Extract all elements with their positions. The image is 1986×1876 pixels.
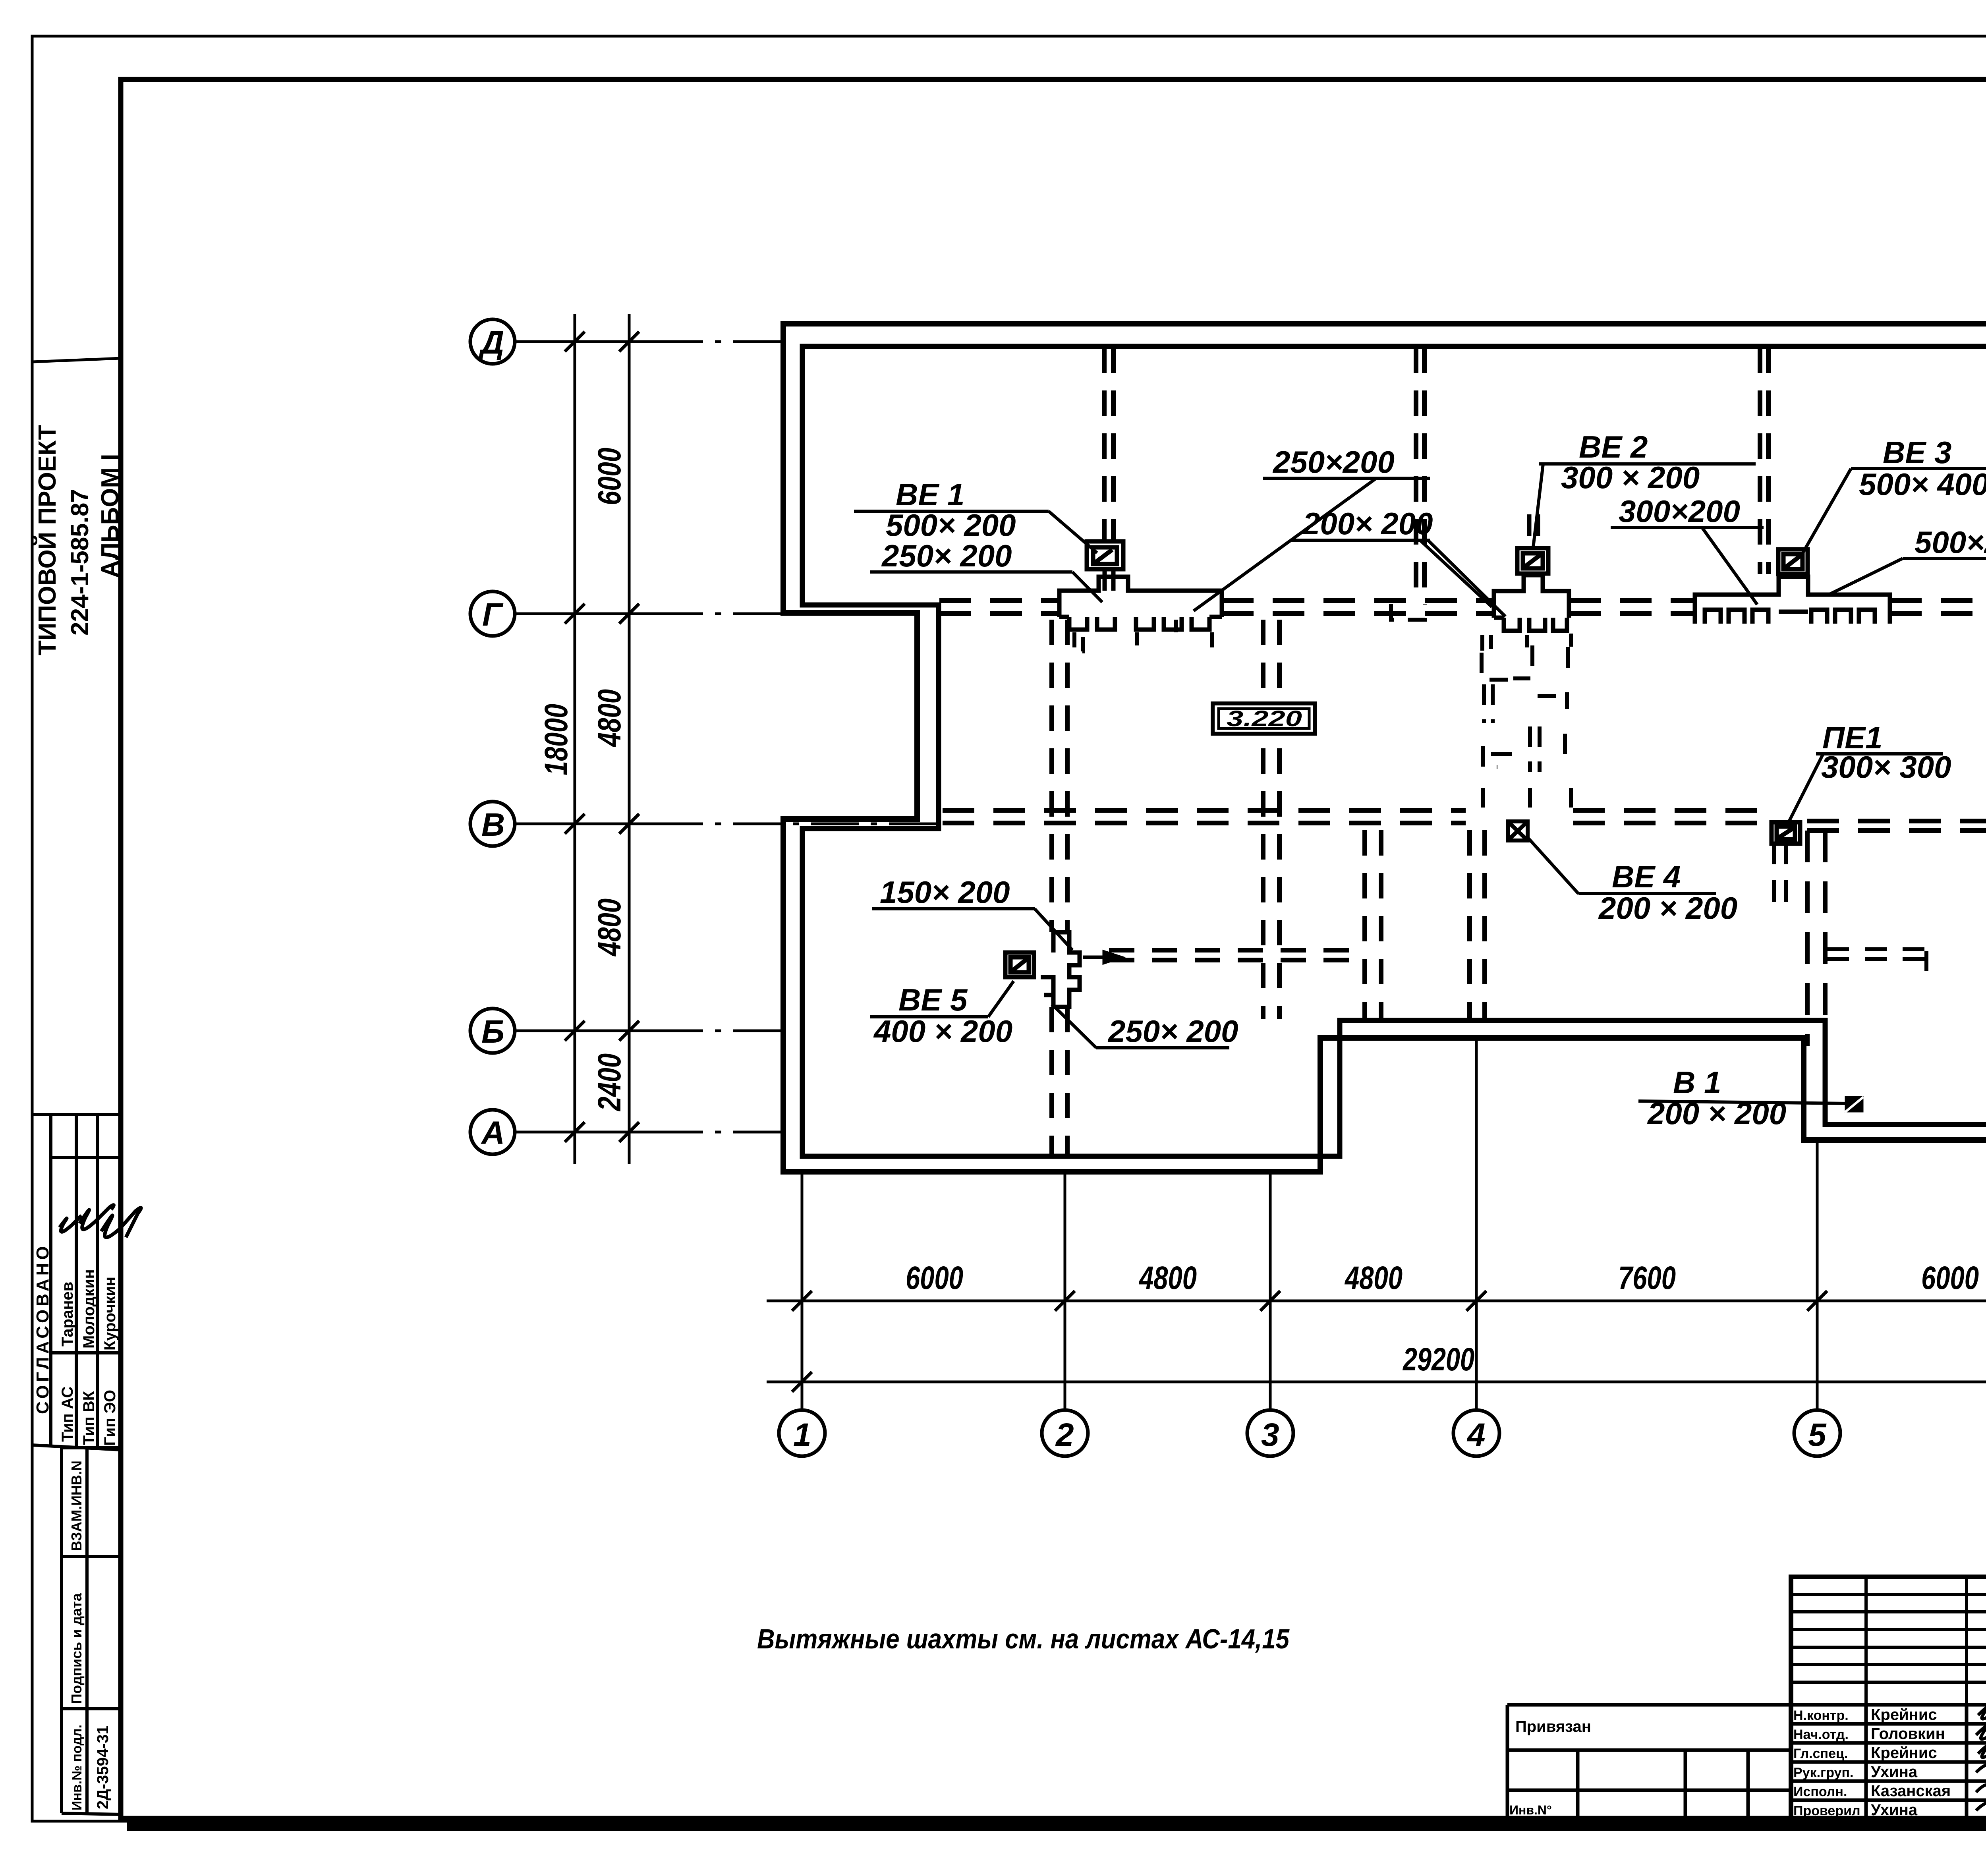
shaft VE4 box (1508, 821, 1528, 840)
bottom extension line axis 5 (1816, 1140, 1819, 1410)
svg-text:4800: 4800 (591, 898, 628, 957)
bottom axis circle 2 (1042, 1410, 1088, 1456)
svg-text:3: 3 (1261, 1417, 1279, 1453)
svg-text:4800: 4800 (1344, 1260, 1403, 1296)
title block outer (1791, 1577, 1986, 1818)
building outer wall outline (783, 324, 1986, 1172)
svg-text:2400: 2400 (591, 1053, 628, 1112)
svg-text:Гл.спец.: Гл.спец. (1793, 1746, 1848, 1761)
svg-text:200 × 200: 200 × 200 (1647, 1096, 1786, 1131)
bottom dimension line 2 (767, 1381, 1986, 1383)
shaft VE5 arrow (1083, 952, 1120, 962)
stair cluster dashed partitions (1482, 645, 1571, 808)
svg-text:5: 5 (1808, 1417, 1827, 1453)
right block inner partition dashed (1827, 949, 1926, 971)
svg-text:224-1-585.87: 224-1-585.87 (66, 489, 94, 636)
svg-text:300×200: 300×200 (1619, 494, 1740, 529)
shaft VE1 comb block (1059, 577, 1222, 630)
chimney duct above VE2 dashed (1529, 514, 1538, 547)
chimney duct x4440 top room dashed (1760, 348, 1768, 574)
svg-text:Ухина: Ухина (1871, 1801, 1918, 1819)
partition x3455 dashed (1365, 830, 1381, 1019)
svg-text:6000: 6000 (591, 448, 628, 505)
svg-text:2: 2 (1055, 1417, 1074, 1453)
leader VE1 (1049, 511, 1097, 553)
axis G line (514, 612, 784, 615)
svg-text:Н.контр.: Н.контр. (1793, 1708, 1849, 1723)
svg-text:4800: 4800 (591, 689, 628, 748)
leader 250x200 top (1194, 478, 1376, 611)
shaft PE1 box (1772, 822, 1800, 844)
bottom extension line axis 2 (1064, 1172, 1066, 1410)
bottom dim ticks (792, 1291, 1986, 1392)
right block left wall dashed (1807, 831, 1825, 1046)
shaft V1 box (1845, 1097, 1863, 1112)
svg-text:300 × 200: 300 × 200 (1561, 460, 1700, 495)
partition axis2 dashed below G (1052, 620, 1067, 1154)
mid room partition dashed horizontal (1109, 950, 1365, 960)
axis B line (514, 1030, 784, 1032)
frame bottom smear line (127, 1821, 1986, 1831)
signature squiggles (1976, 1707, 1986, 1810)
svg-text:6000: 6000 (906, 1260, 963, 1296)
svg-text:СОГЛАСОВАНО: СОГЛАСОВАНО (33, 1243, 52, 1414)
axis D line (514, 340, 784, 343)
leader VE5 (988, 981, 1014, 1017)
svg-text:А: А (481, 1115, 505, 1151)
svg-text:1: 1 (793, 1417, 811, 1453)
svg-text:Таранев: Таранев (59, 1282, 76, 1347)
leader 300x200 second (1702, 527, 1757, 605)
svg-text:Подпись и дата: Подпись и дата (68, 1593, 85, 1704)
svg-text:500×200: 500×200 (1915, 525, 1986, 560)
svg-text:Исполн.: Исполн. (1793, 1784, 1847, 1799)
shaft VE2 lower stubs dashed (1482, 634, 1571, 651)
svg-text:Проверил: Проверил (1793, 1803, 1860, 1818)
leader 250x200 left (1072, 572, 1102, 602)
svg-text:ВЕ 4: ВЕ 4 (1612, 859, 1681, 894)
svg-text:150× 200: 150× 200 (880, 875, 1010, 910)
svg-text:200 × 200: 200 × 200 (1598, 891, 1737, 925)
bottom dimension line 1 (767, 1300, 1986, 1302)
svg-text:Рук.груп.: Рук.груп. (1793, 1765, 1853, 1780)
svg-text:Гип ЭО: Гип ЭО (101, 1390, 119, 1446)
building inner wall outline (802, 346, 1986, 1156)
axis A line (514, 1131, 784, 1134)
elevation mark 3.220 box (1213, 703, 1315, 734)
axis V line (514, 823, 939, 825)
corridor wall V dashed pair (943, 810, 1762, 823)
svg-text:ВЕ 5: ВЕ 5 (898, 982, 968, 1017)
svg-text:Нач.отд.: Нач.отд. (1793, 1727, 1849, 1742)
svg-text:29200: 29200 (1402, 1341, 1474, 1378)
shaft VE2 comb block (1494, 575, 1569, 631)
svg-text:Крейнис: Крейнис (1871, 1706, 1937, 1723)
svg-text:500× 400: 500× 400 (1859, 467, 1986, 502)
bottom axis circle 3 (1247, 1410, 1293, 1456)
axis circle G (470, 591, 515, 636)
svg-text:Крейнис: Крейнис (1871, 1744, 1937, 1762)
leader VE4 (1526, 836, 1578, 894)
svg-text:Инв.N°: Инв.N° (1509, 1803, 1552, 1817)
axis circle V (470, 802, 515, 846)
shaft VE1 duct to comb (1105, 569, 1113, 591)
svg-text:Тип ВК: Тип ВК (80, 1391, 98, 1445)
shaft VE1 box (1087, 541, 1123, 569)
svg-text:6000: 6000 (1921, 1260, 1979, 1296)
svg-text:Молодкин: Молодкин (80, 1269, 98, 1349)
svg-text:ВЗАМ.ИНВ.N: ВЗАМ.ИНВ.N (68, 1461, 85, 1551)
leaders 200x200 mid (1420, 540, 1492, 607)
signatures in soglasovano (60, 1205, 141, 1238)
svg-text:Казанская: Казанская (1871, 1782, 1951, 1800)
title block upper revision grid (1791, 1577, 1986, 1705)
svg-text:В: В (481, 807, 505, 843)
svg-text:250×200: 250×200 (1272, 444, 1395, 479)
shaft VE1 lower stubs dashed (1074, 632, 1212, 651)
left dimension line 18000 (574, 314, 576, 1164)
chimney duct x3575 top room dashed (1416, 348, 1424, 601)
shaft VE2 box (1517, 548, 1548, 574)
title block signature rows (1791, 1705, 1986, 1818)
svg-text:Б: Б (481, 1014, 504, 1050)
svg-text:Г: Г (482, 597, 504, 633)
svg-text:Инв.№ подл.: Инв.№ подл. (70, 1725, 85, 1810)
svg-text:Д: Д (478, 325, 504, 361)
svg-text:18000: 18000 (538, 704, 574, 775)
svg-text:Привязан: Привязан (1515, 1718, 1591, 1735)
bottom axis circle 1 (779, 1410, 825, 1456)
bottom axis circle 4 (1453, 1410, 1499, 1456)
PE1 duct stub dashed (1774, 842, 1786, 908)
svg-text:3.220: 3.220 (1227, 706, 1302, 731)
svg-text:4800: 4800 (1138, 1260, 1197, 1296)
soglasovano table (32, 1115, 121, 1450)
axis circle B (470, 1009, 515, 1053)
svg-text:500× 200: 500× 200 (886, 508, 1016, 543)
svg-text:4: 4 (1466, 1417, 1486, 1453)
svg-text:400 × 200: 400 × 200 (873, 1014, 1012, 1049)
svg-text:250× 200: 250× 200 (881, 538, 1012, 573)
svg-text:Головкин: Головкин (1871, 1725, 1945, 1743)
top band line (121, 77, 1986, 82)
vzam inv block (62, 1448, 121, 1814)
bottom extension line axis 3 (1269, 1172, 1272, 1410)
bottom extension line axis 1 (801, 1172, 804, 1410)
left strip top tick (32, 358, 121, 362)
svg-text:АЛЬБОМ I: АЛЬБОМ I (97, 454, 124, 578)
svg-text:250× 200: 250× 200 (1107, 1014, 1238, 1049)
leader PE1 (1788, 754, 1823, 823)
bottom extension line axis 4 (1475, 1038, 1478, 1410)
corridor wall G dashed pair (939, 601, 1986, 614)
shaft VE3 box (1778, 549, 1808, 574)
shaft VE5 assembly (1005, 932, 1080, 1007)
svg-text:Курочкин: Курочкин (101, 1277, 119, 1350)
svg-text:В 1: В 1 (1673, 1065, 1721, 1100)
privyazan box (1507, 1705, 1791, 1818)
svg-text:Вытяжные шахты см. на лист: Вытяжные шахты см. на листах АС-14,15 (757, 1623, 1290, 1654)
axis circle D (470, 319, 515, 364)
left dimension line segments (628, 314, 631, 1164)
leader 500x200 right (1828, 558, 1903, 595)
partition axis3 dashed (1263, 620, 1279, 1019)
svg-text:ВЕ 2: ВЕ 2 (1579, 429, 1648, 464)
svg-text:Ухина: Ухина (1871, 1763, 1918, 1781)
partition axis4 dashed below V (1470, 830, 1485, 1019)
axis circle A (470, 1110, 515, 1154)
small shaft brackets on G line (1176, 604, 1425, 632)
svg-text:ТИПОВОЙ ПРОЕКТ: ТИПОВОЙ ПРОЕКТ (33, 425, 61, 655)
svg-text:2Д-3594-31: 2Д-3594-31 (94, 1725, 112, 1809)
svg-text:200× 200: 200× 200 (1302, 506, 1433, 541)
right block top wall dashed (1807, 821, 1986, 831)
bottom axis circle 5 (1794, 1410, 1840, 1456)
signature row names (1793, 1706, 1951, 1819)
leader 250x200 ve5 (1052, 1004, 1096, 1048)
svg-text:ВЕ 3: ВЕ 3 (1883, 435, 1951, 470)
shaft VE3 comb block (1695, 577, 1890, 624)
leader VE2 (1533, 464, 1543, 547)
svg-text:Тип АС: Тип АС (59, 1386, 76, 1442)
leader VE3 (1802, 469, 1851, 554)
svg-text:ВЕ 1: ВЕ 1 (896, 477, 964, 512)
left dim ticks (565, 332, 639, 1142)
chimney duct axis2 top room dashed (1104, 348, 1113, 541)
svg-text:7600: 7600 (1618, 1260, 1676, 1296)
leader 150x200 (1035, 909, 1072, 950)
svg-text:300× 300: 300× 300 (1821, 750, 1951, 784)
